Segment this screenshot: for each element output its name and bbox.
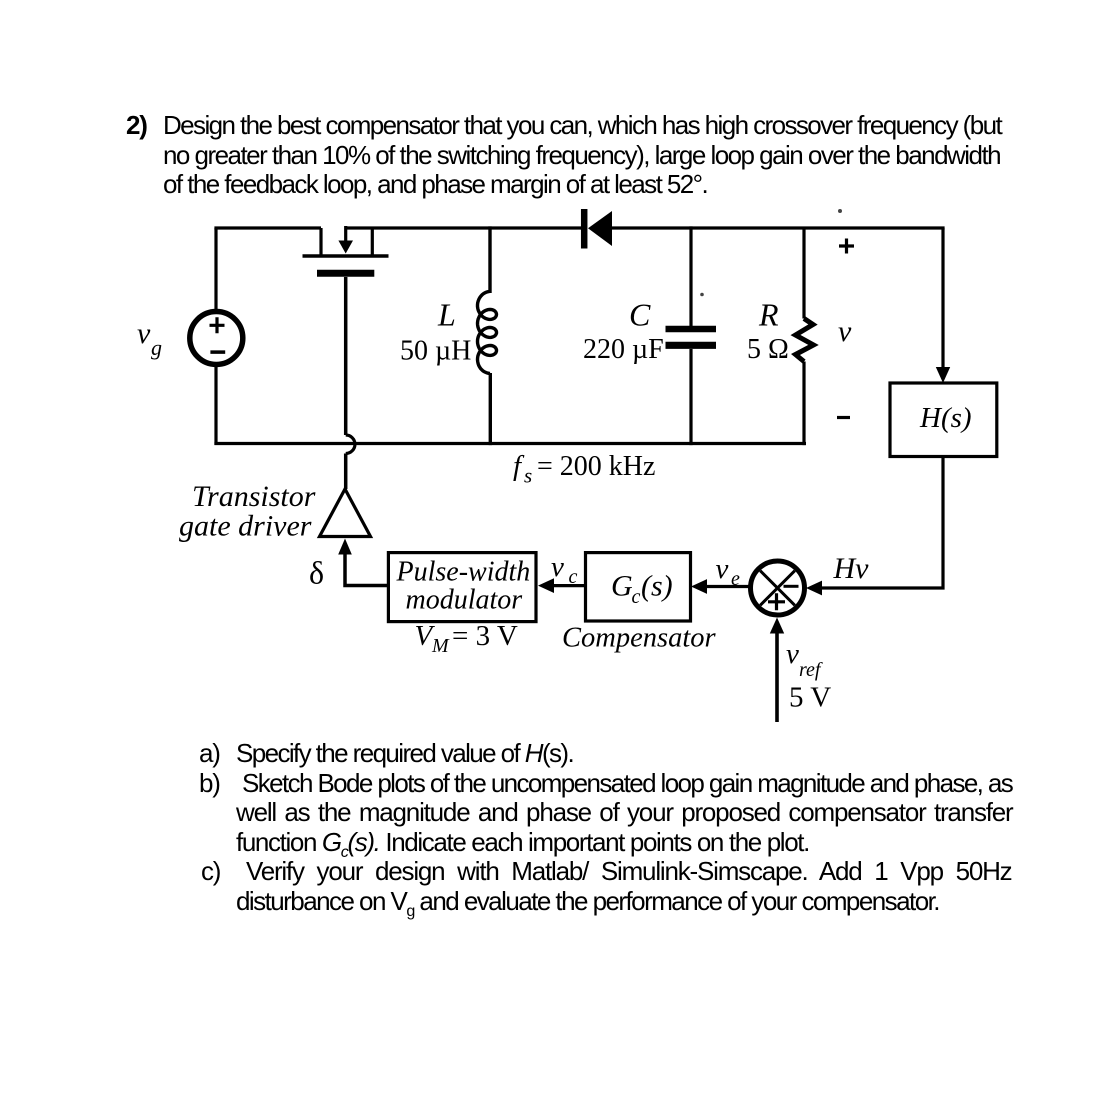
label Pulse-width modulator	[396, 557, 531, 616]
svg-text:R: R	[758, 297, 779, 333]
svg-text:5 Ω: 5 Ω	[747, 334, 789, 365]
svg-text:v: v	[551, 551, 564, 583]
diode D1	[584, 209, 612, 249]
label Compensator	[562, 623, 717, 654]
wire: vc from Gc(s) to PWM	[553, 584, 586, 587]
wire: top rail left segment	[214, 226, 321, 229]
capacitor C	[666, 226, 717, 445]
transistor Q1 arrow	[338, 241, 353, 254]
block: compensator Gc(s)	[586, 553, 691, 621]
top paragraph	[126, 111, 147, 141]
arrowhead into gate driver	[338, 539, 352, 555]
svg-text:v: v	[716, 553, 729, 585]
svg-text:220 µF: 220 µF	[583, 334, 664, 365]
svg-text:C: C	[629, 297, 651, 333]
svg-text:s: s	[524, 464, 532, 488]
arrowhead into Gc(s)	[691, 579, 707, 594]
wire: gate lead from Q1 to driver (with hopover)	[344, 277, 348, 489]
summing junction (vref + , Hv -)	[751, 561, 805, 615]
wire: source top to top rail	[214, 228, 217, 312]
label Gc(s)	[611, 570, 673, 609]
wire: Hv from H(s) output to summer	[822, 457, 943, 589]
label vc	[551, 551, 578, 588]
svg-text:ref: ref	[799, 659, 823, 681]
svg-text:g: g	[151, 335, 162, 360]
wire: delta from PWM to gate driver	[345, 554, 389, 586]
buffer: transistor gate driver	[320, 489, 371, 537]
svg-text:v: v	[838, 315, 852, 348]
transistor Q1 (switch)	[303, 226, 389, 273]
block: pulse-width modulator	[388, 553, 536, 622]
label vg	[137, 317, 162, 360]
svg-text:M: M	[431, 635, 450, 657]
label VM = 3 V (PWM ramp amplitude)	[415, 620, 518, 657]
wire: source bottom to bottom rail	[214, 365, 217, 446]
bottom list	[199, 739, 220, 769]
inductor L	[478, 226, 497, 445]
label vref 5V	[786, 638, 831, 714]
wire hopover arc over bottom rail	[346, 435, 355, 454]
svg-text:= 3 V: = 3 V	[452, 620, 518, 652]
block: sensor gain H(s)	[890, 383, 997, 457]
arrowhead into summer (vref input)	[770, 618, 784, 634]
scan speck	[700, 293, 704, 297]
svg-text:Compensator: Compensator	[562, 623, 717, 654]
svg-text:gate driver: gate driver	[179, 510, 312, 543]
label fs = 200 kHz (switching frequency)	[513, 450, 655, 488]
svg-text:5 V: 5 V	[789, 682, 831, 714]
svg-text:(s): (s)	[641, 570, 673, 603]
arrowhead into H(s)	[936, 367, 950, 383]
wire: ve from summer to Gc(s)	[706, 585, 751, 588]
wire: top rail right segment (diode to H corner)	[612, 226, 945, 229]
label R 5ohm	[747, 297, 789, 366]
svg-text:δ: δ	[309, 555, 324, 591]
label ve	[716, 553, 741, 590]
label Transistor gate driver	[179, 480, 316, 543]
svg-text:Transistor: Transistor	[192, 480, 316, 513]
svg-text:c: c	[632, 586, 641, 608]
wire: top rail mid segment (switch to diode)	[346, 226, 581, 229]
label Hv	[833, 552, 870, 585]
arrowhead into summer (Hv input)	[806, 581, 822, 596]
label delta	[309, 555, 324, 591]
wire: output node down to H(s)	[941, 228, 944, 368]
wire: vref into summer	[775, 632, 779, 722]
label H(s)	[919, 402, 972, 434]
svg-text:Hv: Hv	[833, 552, 870, 585]
svg-text:e: e	[731, 568, 740, 590]
svg-text:G: G	[611, 570, 633, 603]
svg-text:H(s): H(s)	[919, 402, 972, 434]
svg-text:= 200 kHz: = 200 kHz	[537, 451, 655, 482]
wire: bottom rail	[214, 442, 806, 445]
label L 50uH	[400, 297, 471, 367]
scan speck	[838, 209, 842, 213]
svg-text:v: v	[786, 638, 799, 670]
svg-text:v: v	[137, 317, 151, 350]
arrowhead into PWM	[538, 578, 554, 593]
svg-text:modulator: modulator	[406, 585, 523, 616]
label C 220uF	[583, 297, 664, 366]
svg-text:Pulse-width: Pulse-width	[396, 557, 531, 588]
svg-text:L: L	[437, 297, 456, 333]
svg-text:c: c	[569, 566, 578, 588]
svg-text:50 µH: 50 µH	[400, 336, 471, 367]
resistor R	[796, 228, 814, 445]
label output voltage polarity + v -	[837, 239, 854, 418]
voltage source Vg	[190, 312, 243, 365]
